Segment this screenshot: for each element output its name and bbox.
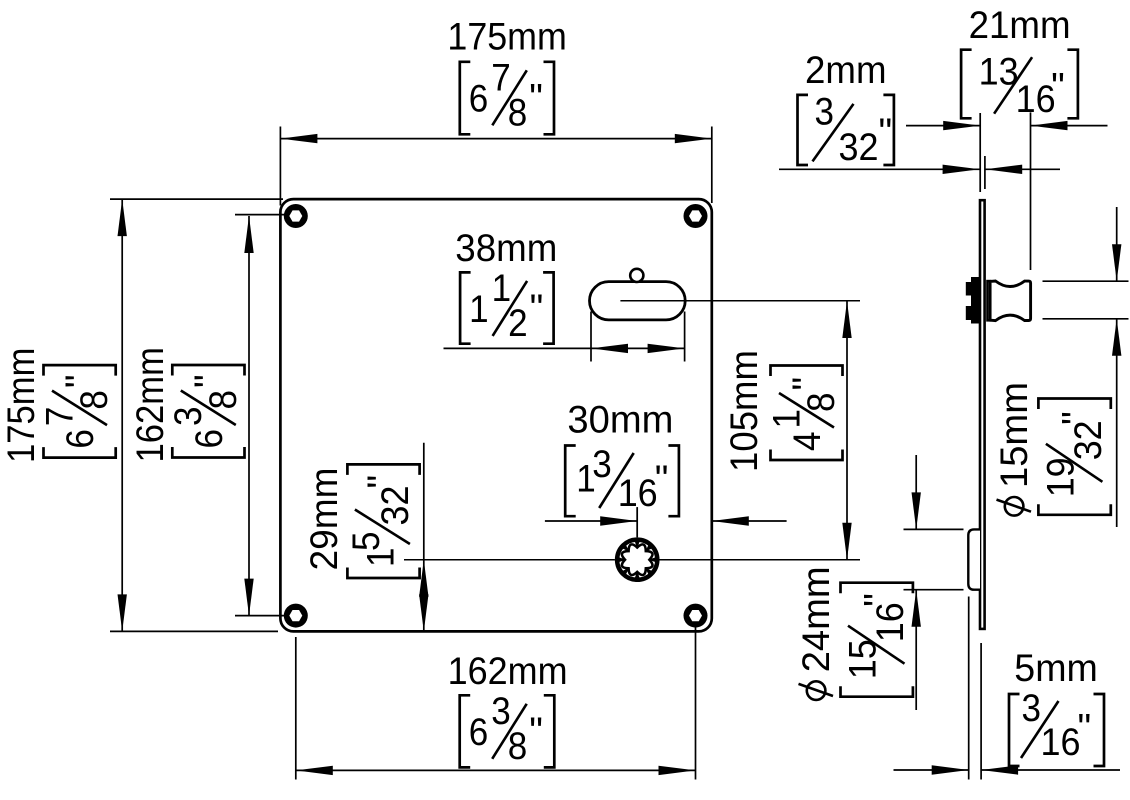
svg-text:8: 8 (73, 390, 116, 410)
svg-text:16: 16 (1016, 78, 1056, 121)
svg-text:2: 2 (508, 302, 527, 345)
knob collar (987, 281, 990, 320)
dim 38mm dimension line (444, 347, 685, 349)
dim 2mm arrow right (985, 165, 1022, 174)
torx spindle hole (615, 537, 660, 582)
svg-text:2mm: 2mm (805, 49, 887, 92)
spindle centerline vertical (636, 507, 638, 537)
svg-text:": " (1051, 66, 1065, 109)
dim 5mm arrow left (932, 765, 969, 774)
dim 5mm arrow right (981, 765, 1018, 774)
dim 38mm extension line left (590, 312, 592, 362)
dim d24 extension line bottom (904, 589, 964, 591)
svg-text:8: 8 (800, 393, 843, 413)
dim 105mm arrow bottom (842, 523, 851, 560)
svg-text:": " (530, 287, 544, 330)
dim 105mm label (723, 350, 843, 472)
dim d15 extension line bottom (1043, 318, 1129, 320)
dim d24 arrow up (912, 590, 921, 627)
svg-text:15mm: 15mm (993, 382, 1036, 488)
svg-text:5mm: 5mm (1014, 647, 1098, 690)
dim 30mm dimension line left (545, 520, 637, 522)
svg-text:5: 5 (345, 532, 388, 552)
screw hole bottom-right (684, 604, 708, 628)
svg-text:32: 32 (374, 486, 417, 526)
svg-text:": " (655, 458, 669, 501)
dim 30mm dimension line right (712, 520, 787, 522)
svg-text:": " (529, 710, 543, 753)
svg-text:175mm: 175mm (447, 16, 567, 59)
dim 2mm dimension line right (985, 168, 1060, 170)
dim 2mm extension tick right (984, 156, 986, 189)
svg-text:": " (1078, 707, 1092, 750)
screw hole top-left (284, 204, 308, 228)
rose cylinder side view (968, 529, 980, 589)
dim 30mm arrow at spindle (600, 516, 637, 525)
dim 29mm label (303, 464, 420, 578)
dim 162mm left arrow bottom (244, 579, 253, 616)
dim 21mm dimension line right tail (1031, 125, 1108, 127)
svg-text:": " (187, 374, 230, 388)
svg-text:": " (1054, 411, 1097, 425)
svg-text:16: 16 (1041, 721, 1081, 764)
dim 175mm top arrow left (280, 134, 317, 143)
dim d15 label (993, 382, 1111, 516)
dim d15 dimension line upper (1116, 207, 1118, 281)
svg-text:16: 16 (618, 472, 658, 515)
dim 30mm arrow at plate edge (712, 516, 749, 525)
svg-text:3: 3 (592, 443, 612, 486)
dim 162mm bottom arrow left (296, 766, 333, 775)
slot centerline (620, 300, 860, 302)
dim 5mm label bracket (1009, 694, 1020, 766)
dim 38mm extension line right (684, 312, 686, 362)
dim 30mm label bracket (565, 446, 576, 517)
svg-text:6: 6 (188, 429, 231, 449)
svg-text:8: 8 (508, 91, 528, 134)
svg-text:8: 8 (508, 725, 528, 768)
dim 5mm extension line left (968, 597, 970, 780)
svg-text:32: 32 (1067, 420, 1110, 460)
dim 175mm left arrow top (118, 199, 127, 236)
dim 175mm left arrow bottom (118, 594, 127, 631)
dim 105mm dimension line (846, 301, 848, 560)
slot pin circle (630, 269, 643, 282)
svg-text:105mm: 105mm (723, 350, 766, 472)
svg-text:175mm: 175mm (0, 348, 43, 464)
svg-text:6: 6 (59, 429, 102, 449)
dim d15 dimension line lower (1116, 319, 1118, 527)
svg-text:30mm: 30mm (567, 399, 673, 442)
dim 21mm extension line left (979, 113, 981, 192)
dim 105mm arrow top (842, 301, 851, 338)
dim d24 label (795, 566, 913, 700)
dim d15 arrow down (1112, 244, 1121, 281)
dim 162mm bottom extension line left (295, 637, 297, 780)
spindle centerline horizontal (404, 559, 860, 561)
dim 162mm bottom label bracket (460, 695, 471, 767)
dim 175mm top dimension line (280, 138, 711, 140)
dim 5mm dimension line left tail (894, 769, 969, 771)
svg-text:1: 1 (469, 288, 489, 331)
dim 2mm arrow left (943, 165, 980, 174)
svg-text:24mm: 24mm (795, 566, 838, 672)
dim 38mm arrow right (648, 344, 685, 353)
dim 5mm dimension line right tail (981, 769, 1120, 771)
dim 5mm extension line right (980, 643, 982, 780)
svg-text:": " (529, 76, 543, 119)
svg-text:6: 6 (469, 77, 489, 120)
screw hole top-right (684, 204, 708, 228)
svg-text:": " (360, 475, 403, 489)
dim d24 dimension line lower (915, 590, 917, 710)
dim 175mm left extension line top (110, 198, 283, 200)
dim 175mm top label bracket (460, 62, 471, 135)
dim 162mm bottom extension line right (695, 627, 697, 780)
svg-text:16: 16 (869, 602, 912, 642)
side plate (980, 200, 985, 629)
svg-text:8: 8 (202, 390, 245, 410)
svg-text:": " (785, 377, 828, 391)
dim 2mm label bracket (798, 95, 809, 165)
svg-text:6: 6 (469, 711, 489, 754)
dim 162mm left dimension line (248, 216, 250, 616)
dim 21mm dimension line left tail (906, 125, 980, 127)
svg-text:21mm: 21mm (969, 4, 1071, 47)
svg-text:38mm: 38mm (455, 227, 557, 270)
dim 29mm arrow up (419, 560, 428, 597)
dim d15 arrow up (1112, 319, 1121, 356)
dim 38mm label bracket (460, 272, 471, 343)
svg-text:4: 4 (786, 432, 829, 452)
dim d24 dimension line upper (915, 455, 917, 529)
dim 162mm bottom arrow right (659, 766, 696, 775)
dim 21mm label bracket (961, 50, 972, 119)
dim 162mm left label (129, 347, 245, 463)
dim 162mm left extension line top (235, 214, 284, 216)
svg-text:162mm: 162mm (129, 347, 172, 463)
dim 21mm arrow right (1031, 121, 1068, 130)
dim d24 arrow down (912, 492, 921, 529)
dim 29mm arrow down (419, 594, 428, 631)
svg-text:3: 3 (1022, 687, 1042, 730)
dim 175mm top extension line left (279, 127, 281, 206)
dim d24 extension line top (904, 528, 964, 530)
knob mounting silhouette (966, 277, 979, 324)
dim 30mm extension line vertical (636, 507, 638, 537)
handle slot (stadium) (590, 282, 686, 320)
front plate outline (280, 199, 711, 631)
dim d15 extension line top (1043, 280, 1129, 282)
dim 21mm extension line right (1030, 112, 1032, 270)
dim 162mm left arrow top (244, 216, 253, 253)
knob profile (990, 281, 1031, 321)
svg-text:": " (879, 111, 893, 154)
dim 38mm arrow left (591, 344, 628, 353)
svg-text:162mm: 162mm (448, 650, 568, 693)
dim 2mm dimension line left (779, 168, 980, 170)
dim 162mm bottom dimension line (296, 769, 696, 771)
svg-text:": " (58, 374, 101, 388)
dim 175mm left label (0, 348, 116, 464)
svg-text:3: 3 (815, 90, 835, 133)
dim 175mm left dimension line (121, 199, 123, 631)
screw hole bottom-left (284, 604, 308, 628)
svg-text:": " (857, 593, 900, 607)
svg-text:32: 32 (839, 126, 879, 169)
dim 175mm top arrow right (675, 134, 712, 143)
dim 21mm arrow left (943, 121, 980, 130)
dim 29mm dimension line (423, 443, 425, 632)
dim 175mm left extension line bottom (110, 630, 278, 632)
dim 175mm top extension line right (711, 127, 713, 204)
dim 162mm left extension line bottom (235, 615, 284, 617)
svg-text:29mm: 29mm (303, 468, 346, 571)
